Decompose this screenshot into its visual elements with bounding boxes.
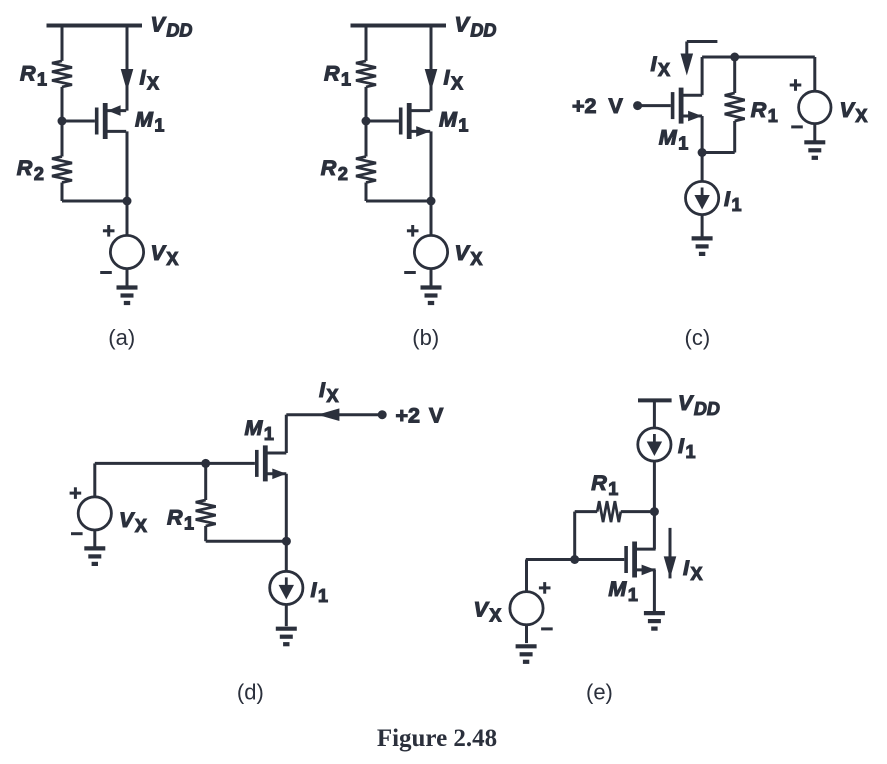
svg-text:VX: VX xyxy=(455,241,483,269)
svg-text:M1: M1 xyxy=(659,126,688,154)
svg-text:VX: VX xyxy=(151,241,179,269)
svg-text:R2: R2 xyxy=(321,156,348,184)
svg-text:IX: IX xyxy=(651,52,671,80)
svg-text:VX: VX xyxy=(119,508,147,536)
svg-text:M1: M1 xyxy=(608,577,637,605)
svg-text:(d): (d) xyxy=(237,679,264,704)
svg-text:(c): (c) xyxy=(685,325,711,350)
svg-text:+2: +2 xyxy=(396,403,421,427)
svg-text:R1: R1 xyxy=(20,62,47,90)
svg-text:(a): (a) xyxy=(108,325,135,350)
svg-text:IX: IX xyxy=(319,378,339,406)
svg-text:I1: I1 xyxy=(678,434,696,462)
svg-text:VDD: VDD xyxy=(678,391,720,419)
svg-text:I1: I1 xyxy=(311,578,329,606)
svg-text:(e): (e) xyxy=(586,679,613,704)
svg-text:VX: VX xyxy=(840,98,868,126)
svg-text:VDD: VDD xyxy=(151,13,193,41)
svg-text:IX: IX xyxy=(140,66,160,94)
svg-text:M1: M1 xyxy=(439,108,468,136)
svg-text:R1: R1 xyxy=(751,98,778,126)
svg-text:M1: M1 xyxy=(245,416,274,444)
svg-text:VDD: VDD xyxy=(455,13,497,41)
svg-text:V: V xyxy=(609,94,624,118)
svg-text:R1: R1 xyxy=(591,471,618,499)
svg-text:Figure 2.48: Figure 2.48 xyxy=(377,725,497,752)
svg-text:+2: +2 xyxy=(572,94,597,118)
svg-text:R2: R2 xyxy=(17,156,44,184)
svg-text:R1: R1 xyxy=(324,62,351,90)
svg-text:(b): (b) xyxy=(412,325,439,350)
svg-text:VX: VX xyxy=(474,597,502,625)
svg-text:IX: IX xyxy=(683,556,703,584)
svg-text:I1: I1 xyxy=(724,187,742,215)
svg-text:IX: IX xyxy=(444,66,464,94)
svg-text:M1: M1 xyxy=(135,108,164,136)
svg-text:R1: R1 xyxy=(167,506,194,534)
svg-text:V: V xyxy=(429,403,444,427)
